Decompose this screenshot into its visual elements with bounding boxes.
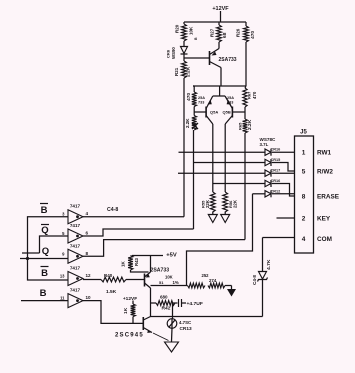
wire +5V stub [132,255,163,257]
resistor R41 1K (base pullup) [123,304,135,317]
wire R40 to Q6 base [126,279,145,281]
label C4-8 net [107,207,118,213]
diode CR8 WS-90 [166,41,188,59]
wire diode3 to pin5 [272,172,295,174]
svg-text:R20: R20 [175,24,180,33]
wire COM from pin 4 [263,237,295,239]
label +5V [166,253,177,259]
svg-text:J5: J5 [300,130,307,136]
transistor Q5B (right of pair) [223,96,235,124]
svg-text:1: 1 [302,150,306,157]
wire bottom rail (collector to COM) [151,316,263,318]
svg-text:4.7SC: 4.7SC [179,320,192,325]
label input Q (gate3) [42,246,49,257]
pin 4 COM [302,236,332,243]
svg-text:+5V: +5V [166,253,177,259]
svg-text:1.5K: 1.5K [106,289,117,295]
svg-text:680: 680 [160,295,168,300]
wire mid +rail [193,85,246,87]
diode CR12 row 5 [265,189,280,197]
resistor R20 10K [175,22,199,41]
capacitor 4.7UF [175,299,203,307]
svg-text:7417: 7417 [70,288,81,293]
wire to ground right [225,286,232,290]
svg-text:R/W2: R/W2 [317,169,333,176]
varistor CR13 [167,319,192,332]
svg-text:25A: 25A [198,96,205,100]
svg-text:7417: 7417 [70,204,81,209]
transistor Q4 2SA733 (PNP) [210,43,237,86]
svg-text:2SA733: 2SA733 [151,268,170,274]
svg-text:733: 733 [198,101,204,105]
label +12VF lower [123,296,137,302]
svg-text:WS90: WS90 [171,47,176,59]
svg-text:10K: 10K [189,26,194,35]
wire input gate4 [28,259,69,281]
svg-text:733: 733 [227,101,233,105]
wire +12VF to R41 [132,301,134,305]
resistor 2.2K R65 (right bias) [238,119,254,133]
wire bus row 4 [213,183,265,185]
svg-text:2: 2 [302,216,306,223]
wire bus row 1 [179,151,265,153]
wire bus row 3 [178,172,265,174]
label input B-bar (gate1) [40,204,48,217]
svg-text:22K: 22K [205,199,210,208]
wire KEY stub [277,217,295,219]
wire bus row 5 [253,193,265,195]
svg-text:B: B [194,37,198,40]
resistor 2.2K (left bias) [185,116,198,131]
wire gate2 output to bus [83,130,194,236]
svg-text:R26: R26 [236,28,241,37]
wire input gate3 from edge [20,258,68,260]
wire gate4 output [83,279,101,281]
wire input gate1 [28,217,69,259]
resistor R40 1.5K [101,273,126,295]
svg-text:2.2K: 2.2K [186,66,192,77]
wire input gate2 [40,236,69,253]
svg-text:+4.7UF: +4.7UF [187,301,203,307]
svg-text:2.2K: 2.2K [247,119,253,130]
svg-text:25A: 25A [227,96,234,100]
ground under R56 [221,212,230,223]
node left base junction [194,107,206,116]
wire CR13 to ground [171,328,174,341]
svg-text:11: 11 [60,296,65,301]
label input Q-bar (gate2) [41,225,49,237]
svg-text:C4-8: C4-8 [252,275,257,285]
label input B-bar (gate4) [41,267,49,280]
wire right collector drop [224,124,226,192]
svg-text:ERASE: ERASE [317,194,340,201]
connector J5 box [295,130,314,254]
power +12VF supply label [212,6,229,12]
svg-text:B: B [40,288,47,299]
wire Q stub upper [22,252,40,254]
wire Q7 emitter to ground node [153,333,169,341]
node right base junction [232,107,245,119]
svg-text:252: 252 [202,273,210,278]
wire diode1 to pin1 [272,151,295,153]
svg-text:1K: 1K [123,307,129,314]
svg-text:274: 274 [209,278,217,283]
resistor R26 470 [236,22,257,42]
pin 5 R/W2 [302,169,334,176]
wire right chain down to gate3 line [244,133,246,240]
buffer U5 7417 [60,288,91,308]
buffer U2 7417 [62,223,88,243]
ground right of 252 [227,289,236,297]
svg-text:R65: R65 [238,122,243,130]
svg-text:R21: R21 [174,67,179,76]
svg-text:B: B [41,268,48,279]
svg-text:7417: 7417 [70,223,81,228]
svg-text:13: 13 [60,274,65,279]
buffer U1 7417 [62,204,88,224]
buffer U4 7417 [60,266,91,286]
wire Q4 base [184,57,210,59]
wire cap node down to CR13 [173,303,176,319]
resistor 470 (left bias) [186,86,197,107]
buffer U3 7417 [62,243,88,263]
resistor R55 22K (pulldown) [201,192,216,212]
wire top +12V rail [184,21,246,23]
transistor Q7 2SC945 (NPN) [115,317,152,339]
resistor R43 1K (emitter pullup) [121,256,140,271]
svg-text:1K: 1K [121,260,126,267]
diode CR16 row 1 [265,148,280,156]
svg-text:3: 3 [62,212,65,217]
ground bottom [165,342,179,353]
svg-text:Q5A: Q5A [210,110,218,115]
wire left collector drop [212,124,214,192]
pin 1 RW1 [302,150,332,157]
svg-text:Q: Q [41,225,48,236]
resistor R21 2.2K [174,61,192,78]
svg-text:CR12: CR12 [271,189,281,193]
svg-text:R27: R27 [210,28,215,37]
svg-text:8: 8 [86,251,89,256]
pin 2 KEY [302,216,331,223]
svg-text:10: 10 [86,295,92,300]
wire diode5 to pin8 [272,193,295,195]
junction dot A [26,257,29,260]
svg-text:22K: 22K [233,199,238,208]
transistor Q5A (left of pair) [198,96,218,124]
svg-text:470: 470 [250,31,256,39]
label diode group type WS78C [260,137,277,147]
svg-text:470: 470 [186,93,192,101]
svg-text:68: 68 [222,32,228,38]
svg-text:CR8: CR8 [166,49,171,58]
svg-text:B: B [41,205,48,216]
wire gate5 output to Q7 base [83,301,143,324]
diode CR17 row 3 [265,169,280,177]
wire collector resistor line [151,285,188,287]
svg-text:470: 470 [252,91,257,99]
svg-text:2SC945: 2SC945 [115,333,144,339]
zener CR C4-8 on COM line [252,259,272,285]
svg-text:CR13: CR13 [180,326,193,332]
svg-text:1%: 1% [173,280,179,285]
node base of Q4 [183,58,185,61]
svg-text:2SA733: 2SA733 [219,57,237,63]
svg-text:6: 6 [86,231,89,236]
wire R26 down to mid rail [245,42,247,86]
svg-text:CR17: CR17 [271,169,281,173]
resistor 680 R42 [151,295,176,312]
svg-text:5: 5 [302,169,306,176]
diode CR16 row 4 [265,179,280,187]
svg-text:7417: 7417 [70,243,81,248]
label input B (gate5) [40,288,47,299]
wire emitter junction [213,86,225,96]
svg-text:10K: 10K [165,275,173,280]
svg-text:5: 5 [62,231,65,236]
svg-text:COM: COM [317,236,332,243]
svg-text:R40: R40 [104,273,113,278]
svg-text:R67: R67 [247,91,252,99]
wire COM vertical lower [262,280,264,317]
svg-text:4: 4 [302,236,306,243]
wire diode2 to pin5 [272,163,295,172]
svg-text:R43: R43 [134,257,139,266]
svg-text:51: 51 [159,280,164,285]
wire diode4 to pin8 [272,184,295,197]
wire +12VF to top rail [220,11,222,22]
pin 8 ERASE [302,194,340,201]
svg-text:CR16: CR16 [271,179,281,183]
wire 1K bottom to emitter [131,270,149,272]
wire R41 to base line [132,317,134,324]
svg-text:CR16: CR16 [271,148,281,152]
wire ERASE net riser to bus row5 [187,194,253,286]
svg-text:C4-8: C4-8 [107,207,118,213]
svg-text:+12VF: +12VF [123,296,137,302]
resistor 470 (right bias) [243,86,257,107]
wire bus row 2 [194,162,265,164]
svg-text:3.7L: 3.7L [260,142,269,147]
svg-text:2.2K: 2.2K [185,118,190,128]
resistor R56 22K (pulldown) [223,192,238,212]
svg-text:7417: 7417 [70,266,81,271]
svg-text:Q: Q [42,246,49,257]
svg-text:RW1: RW1 [317,150,332,157]
resistor 51 1% [159,275,205,288]
svg-text:R42: R42 [162,306,171,312]
svg-text:CR15: CR15 [271,158,281,162]
svg-text:Q5B: Q5B [223,110,231,115]
svg-text:4.7K: 4.7K [266,259,272,270]
resistor 252 [202,273,226,288]
wire COM vertical upper [262,238,264,272]
svg-text:9: 9 [62,251,65,256]
diode CR15 row 2 [265,158,280,166]
wire gate1 output to bus [83,78,184,217]
wire input gate5 from edge [21,300,68,302]
svg-text:8: 8 [302,194,306,201]
wire gate3 output to right bias chain [83,240,245,257]
svg-text:KEY: KEY [317,216,331,223]
svg-text:4: 4 [86,211,89,216]
ground under R55 [208,212,217,223]
transistor Q6 2SA733 (PNP) [145,256,170,317]
resistor R27 68 [210,22,229,43]
svg-text:12: 12 [86,273,92,278]
